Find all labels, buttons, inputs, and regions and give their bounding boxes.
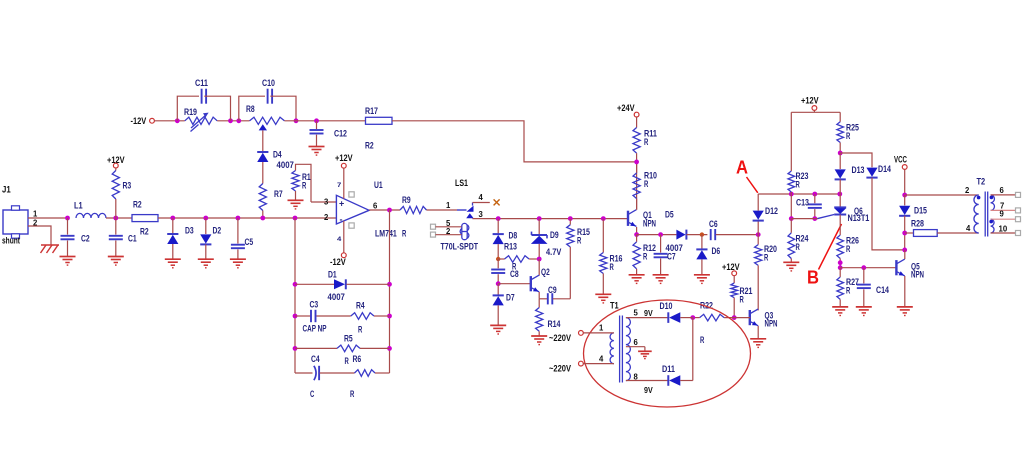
- capacitor C8: [491, 270, 505, 274]
- highlight ellipse: [584, 300, 751, 407]
- svg-text:R: R: [764, 253, 768, 264]
- wire to C4: [295, 372, 313, 374]
- wire R9 to relay pin 1: [427, 209, 458, 211]
- junction C7 node: [658, 232, 663, 237]
- ground under C2: [60, 257, 76, 266]
- wire to R14: [538, 299, 540, 308]
- wire to C5: [237, 218, 239, 244]
- relay coil: [460, 223, 469, 239]
- junction R3/C1 node: [113, 216, 118, 221]
- svg-text:4: 4: [966, 223, 971, 233]
- terminal ~220V pin 1: [579, 331, 584, 336]
- wire pin 8 T1 to D11: [626, 380, 668, 382]
- svg-text:C6: C6: [709, 219, 718, 230]
- wire Q1 emitter to node: [636, 227, 638, 235]
- wire to Q2 base: [498, 283, 530, 285]
- transformer T2 upper secondary winding: [991, 195, 995, 210]
- junction R21/R22 node: [732, 315, 737, 320]
- wire to C9: [539, 298, 547, 300]
- resistor R26: [837, 235, 844, 259]
- relay common lead: [457, 209, 467, 211]
- wire R16 to ground: [602, 274, 604, 294]
- svg-text:D6: D6: [712, 246, 721, 257]
- diode D15: [899, 206, 910, 216]
- relay contact to pin 3: [466, 213, 473, 218]
- svg-text:R17: R17: [365, 106, 378, 117]
- junction C10 left: [236, 118, 241, 123]
- wire D3 to ground: [172, 244, 174, 259]
- svg-text:3: 3: [324, 197, 329, 207]
- resistor R1: [292, 171, 299, 192]
- ground under R12: [629, 275, 645, 284]
- wire D13 to node A: [839, 179, 841, 194]
- svg-text:4.7V: 4.7V: [546, 247, 562, 258]
- polarity dot T2 upper secondary: [990, 196, 994, 200]
- diode D2: [200, 234, 211, 244]
- no-connect X on pin 4: [494, 199, 500, 205]
- wire D4 to R7: [262, 162, 264, 184]
- svg-text:C4: C4: [311, 354, 320, 365]
- resistor R7: [259, 184, 266, 211]
- wire R22 to Q3 base: [724, 317, 750, 319]
- wire +12V rail: [791, 111, 840, 113]
- wire Q6 to R26: [839, 215, 841, 235]
- svg-text:VCC: VCC: [894, 155, 907, 166]
- svg-text:C11: C11: [195, 78, 209, 89]
- wire C12 to ground: [316, 135, 318, 146]
- ground under C14: [856, 307, 872, 316]
- transformer T1 primary winding: [610, 333, 614, 364]
- svg-text:D12: D12: [765, 206, 778, 217]
- svg-text:R2: R2: [133, 200, 142, 211]
- svg-text:5: 5: [634, 308, 639, 318]
- pad pin 10 T2: [1016, 231, 1021, 236]
- wire C14 to ground: [863, 289, 865, 306]
- wire feedback left rail: [294, 218, 296, 373]
- svg-text:9V: 9V: [644, 385, 653, 395]
- pad pin 2 LS1: [431, 232, 436, 237]
- wire R4 to right rail: [374, 315, 390, 317]
- svg-text:R13: R13: [504, 242, 517, 253]
- wire rail to R23: [790, 112, 792, 171]
- svg-text:+24V: +24V: [617, 103, 635, 114]
- wire D2 to ground: [205, 244, 207, 258]
- wire D14 to VCC node: [872, 178, 905, 250]
- diode D5: [676, 230, 686, 240]
- svg-text:D5: D5: [665, 210, 674, 221]
- junction D1 left: [293, 282, 298, 287]
- svg-text:+12V: +12V: [801, 96, 819, 107]
- annotation line B: [819, 224, 842, 270]
- wire pin 4 T1: [583, 363, 614, 365]
- wire emitter node to D5: [637, 234, 677, 236]
- wire T2 pin 9: [991, 218, 1016, 220]
- wire +12V to R21: [733, 276, 735, 283]
- wire R24 to ground: [790, 259, 792, 262]
- wire node A to Q6: [839, 194, 841, 207]
- resistor R5: [337, 345, 360, 352]
- svg-text:R19: R19: [184, 107, 197, 118]
- ground T1 center tap: [638, 351, 652, 358]
- svg-text:~220V: ~220V: [549, 333, 572, 344]
- resistor R6: [355, 370, 376, 377]
- resistor R3: [112, 171, 119, 200]
- wire T2 pin 6: [991, 194, 1016, 196]
- svg-text:C7: C7: [667, 252, 676, 263]
- power terminal +12V R3: [113, 163, 118, 168]
- svg-text:R9: R9: [402, 195, 411, 206]
- transistor Q5: [896, 259, 905, 276]
- diode D13: [835, 169, 846, 179]
- svg-text:6: 6: [373, 201, 378, 211]
- svg-text:T70L-SPDT: T70L-SPDT: [441, 242, 479, 253]
- junction D6 node: [700, 232, 704, 236]
- wire R21 to base node: [733, 298, 735, 318]
- wire pin 1 T1: [583, 332, 614, 334]
- potentiometer R19: [185, 117, 217, 124]
- svg-text:C9: C9: [548, 285, 557, 296]
- resistor R27: [837, 277, 844, 299]
- wire to D8: [497, 219, 499, 234]
- wire to R27: [839, 268, 841, 277]
- wire to R20: [757, 235, 759, 245]
- svg-text:C5: C5: [245, 237, 254, 248]
- svg-text:U1: U1: [374, 180, 383, 191]
- wire to C8: [497, 259, 499, 268]
- svg-text:R: R: [610, 262, 614, 273]
- power terminal -12V op-amp: [341, 253, 346, 258]
- svg-text:4: 4: [599, 354, 604, 364]
- diode D10: [668, 312, 680, 323]
- svg-text:C2: C2: [81, 234, 90, 245]
- junction R26 lower: [838, 260, 843, 265]
- junction T2 pin2 node: [902, 193, 907, 198]
- wire R23 to node A: [790, 192, 792, 194]
- svg-text:R8: R8: [246, 104, 255, 115]
- svg-text:D15: D15: [914, 206, 928, 217]
- junction C11 right: [228, 118, 233, 123]
- wire to D6: [701, 235, 703, 249]
- svg-text:D10: D10: [660, 301, 673, 312]
- wire relay pin 5: [436, 226, 462, 228]
- wire C4 to R6: [320, 372, 355, 374]
- wire to R13: [498, 258, 504, 260]
- pad pin 6 T2: [1016, 192, 1021, 197]
- wire Q5 collector: [904, 250, 906, 259]
- power terminal -12V: [150, 118, 155, 123]
- trigger device Q6 N13T1: [818, 207, 847, 218]
- svg-text:shunt: shunt: [2, 236, 21, 247]
- polarity dot T2 primary: [977, 196, 981, 200]
- junction Q2 base node: [496, 281, 501, 286]
- svg-text:4007: 4007: [328, 292, 345, 303]
- svg-text:C12: C12: [334, 129, 347, 140]
- zener diode D9: [531, 232, 548, 244]
- resistor R25: [837, 122, 844, 143]
- svg-text:1: 1: [446, 200, 451, 210]
- wire op-amp pin 4 to -12V: [343, 221, 345, 253]
- potentiometer R8: [250, 117, 285, 124]
- junction C14 node: [861, 265, 866, 270]
- resistor R9: [400, 206, 427, 213]
- svg-text:R: R: [358, 325, 362, 336]
- junction C10 right: [294, 118, 299, 123]
- wire C1 to ground: [115, 241, 117, 257]
- transistor Q2: [530, 275, 539, 292]
- diode D7: [493, 295, 504, 305]
- wire R15 to C9: [569, 247, 571, 299]
- capacitor C6: [711, 229, 716, 240]
- power terminal +12V right: [812, 106, 817, 111]
- ground under R1: [288, 200, 304, 209]
- wire base row to Q5: [840, 267, 896, 269]
- wire Q1 collector to R10: [636, 162, 638, 210]
- wire to D7: [497, 284, 499, 295]
- resistor R11: [633, 128, 640, 154]
- transformer T1 secondary winding: [626, 318, 631, 381]
- wire R12 to ground: [636, 269, 638, 275]
- wire to R24: [790, 219, 792, 233]
- junction R11/R10 node: [634, 160, 639, 165]
- power terminal +24V: [634, 112, 639, 117]
- pad pin 5 LS1: [431, 224, 436, 229]
- resistor R22: [700, 314, 725, 321]
- svg-text:D1: D1: [328, 270, 337, 281]
- polarity dot T2 lower secondary: [989, 220, 993, 224]
- wire D6 to ground: [701, 259, 703, 274]
- svg-text:LS1: LS1: [455, 178, 469, 189]
- resistor R16: [600, 253, 607, 274]
- junction R5 left: [293, 346, 298, 351]
- wire to Q2 collector: [538, 259, 540, 276]
- capacitor C13: [808, 204, 822, 208]
- diode D14: [866, 168, 877, 178]
- svg-text:D4: D4: [273, 150, 282, 161]
- svg-text:D7: D7: [506, 293, 515, 304]
- transistor Q3: [749, 309, 758, 326]
- junction R15 node: [568, 216, 573, 221]
- wire C7 to ground: [660, 259, 662, 275]
- wire R5 to right rail: [360, 347, 390, 349]
- svg-text:R: R: [644, 137, 648, 148]
- svg-text:~220V: ~220V: [549, 364, 572, 375]
- wire R1 to ground: [295, 191, 297, 200]
- junction D13/Q6 node A: [837, 192, 842, 197]
- svg-text:LM741: LM741: [375, 229, 397, 240]
- wire D10 to node: [680, 317, 693, 319]
- ground under D6: [694, 275, 710, 284]
- junction R25/D13/D14: [838, 151, 843, 156]
- wire D11 to node: [680, 380, 693, 382]
- svg-text:9: 9: [1000, 209, 1005, 219]
- svg-text:C14: C14: [876, 285, 890, 296]
- wire D10 to R22: [693, 317, 700, 319]
- ground under D3: [165, 259, 181, 268]
- junction C2 node: [65, 216, 70, 221]
- wire to D15: [904, 195, 906, 205]
- wire R13 to D9 chain: [529, 258, 539, 260]
- wire R20 to Q3 collector: [757, 265, 759, 310]
- svg-text:R3: R3: [123, 181, 132, 192]
- wire VCC to pin2 node: [904, 169, 906, 195]
- wire R11 to R10: [636, 153, 638, 173]
- junction R16 node: [601, 216, 606, 221]
- ground under R16: [595, 294, 611, 303]
- wire to D2: [205, 218, 207, 234]
- svg-text:R: R: [700, 335, 704, 346]
- svg-text:R: R: [846, 244, 850, 255]
- ground under Q5: [897, 307, 913, 316]
- wire R28 to T2 pin 4: [937, 232, 979, 234]
- svg-text:NPN: NPN: [643, 219, 656, 230]
- wire feedback right rail: [389, 210, 391, 373]
- svg-text:R5: R5: [344, 334, 353, 345]
- junction C13 top: [812, 192, 817, 197]
- diode D8: [493, 234, 504, 244]
- wire R10 to Q1 collector: [636, 199, 638, 210]
- svg-text:T2: T2: [977, 177, 986, 188]
- ground under R27: [832, 307, 848, 316]
- resistor R28 box: [914, 230, 938, 237]
- wire -12V to R19: [154, 120, 184, 122]
- wire L1 to R2: [106, 217, 132, 219]
- wire +12V to op-amp pin 7: [343, 168, 345, 199]
- wire R6 to right rail: [375, 372, 390, 374]
- ground under C1: [108, 257, 124, 266]
- svg-text:R4: R4: [356, 301, 365, 312]
- junction R13 left: [496, 257, 500, 261]
- capacitor C5: [231, 245, 245, 249]
- svg-text:D11: D11: [662, 364, 676, 375]
- inductor L1: [76, 213, 106, 218]
- junction R23/node A: [789, 192, 794, 197]
- wire C13 to gate row: [814, 209, 816, 219]
- junction C13 bottom: [812, 216, 817, 221]
- svg-text:6: 6: [634, 337, 639, 347]
- svg-text:R2: R2: [365, 141, 374, 152]
- wire to T2 pin 2: [905, 194, 979, 196]
- resistor R24: [788, 233, 795, 259]
- svg-text:D2: D2: [213, 226, 222, 237]
- wire R25 to D13 node: [839, 143, 841, 154]
- resistor R4: [351, 313, 374, 320]
- wire to C3: [295, 315, 311, 317]
- wire pin 5 T1 to D10: [626, 317, 668, 319]
- pad pin 7 T2: [1016, 208, 1021, 213]
- transformer T2 primary winding: [974, 195, 979, 233]
- ground under Q3: [750, 339, 766, 348]
- capacitor C1: [109, 236, 123, 240]
- resistor R23: [788, 171, 795, 192]
- svg-text:R: R: [577, 236, 581, 247]
- svg-text:R: R: [740, 295, 744, 306]
- svg-text:R2: R2: [140, 227, 149, 238]
- wire C3 to R4: [317, 315, 351, 317]
- wiper arrow R19: [191, 113, 209, 132]
- junction D2 node: [203, 216, 208, 221]
- svg-text:+12V: +12V: [335, 153, 353, 164]
- junction D12/R20 node: [756, 232, 761, 237]
- svg-text:NPN: NPN: [765, 319, 778, 330]
- wire to R15: [569, 219, 571, 225]
- svg-text:B: B: [807, 268, 819, 288]
- wire wiper to D4: [262, 130, 264, 151]
- wire Q2 emitter: [538, 292, 540, 299]
- wire to C2: [67, 218, 69, 235]
- svg-text:+12V: +12V: [722, 262, 740, 273]
- diode D11: [668, 375, 680, 386]
- wire Q5 emitter to ground: [904, 276, 906, 306]
- wire to D3: [172, 218, 174, 233]
- wire pin3 to R1: [296, 164, 312, 202]
- svg-text:C13: C13: [796, 198, 809, 209]
- svg-text:6: 6: [1000, 185, 1005, 195]
- wire Q3 emitter to ground: [757, 326, 759, 338]
- svg-text:Q2: Q2: [541, 267, 550, 278]
- wire R27 to ground: [839, 299, 841, 306]
- wire gate row: [791, 218, 818, 220]
- wire to D1: [295, 283, 334, 285]
- wire to R5: [295, 347, 337, 349]
- svg-text:R: R: [402, 229, 406, 240]
- ground under C12: [309, 147, 325, 156]
- transformer T1 core: [620, 316, 623, 383]
- chassis ground: [41, 245, 60, 253]
- junction D9/R13: [537, 257, 542, 262]
- wire to R12: [636, 235, 638, 242]
- svg-text:1: 1: [599, 323, 604, 333]
- svg-text:9V: 9V: [644, 308, 653, 318]
- svg-text:2: 2: [965, 185, 970, 195]
- svg-text:L1: L1: [74, 201, 83, 212]
- power terminal +12V R21: [732, 271, 737, 276]
- svg-text:8: 8: [634, 372, 639, 382]
- ground under D7: [490, 325, 506, 334]
- svg-text:-: -: [340, 215, 343, 225]
- svg-text:NPN: NPN: [911, 270, 924, 281]
- junction Q1 emitter node: [634, 232, 639, 237]
- svg-text:2: 2: [446, 226, 451, 236]
- wire C6 to D12 node: [716, 234, 758, 236]
- junction D1 right: [387, 282, 392, 287]
- wire to C12: [316, 121, 318, 129]
- junction C3 left: [293, 314, 298, 319]
- svg-text:-12V: -12V: [131, 116, 147, 127]
- capacitor C3: [311, 310, 316, 322]
- svg-text:4007: 4007: [277, 160, 294, 171]
- diode D12: [753, 211, 764, 221]
- wire R8 to R17: [284, 120, 365, 122]
- wire to D13: [839, 153, 841, 169]
- connector J1: [3, 206, 28, 238]
- wire R23 node down: [790, 194, 792, 219]
- resistor R2 box: [132, 215, 158, 222]
- capacitor C11: [202, 89, 207, 104]
- resistor R21: [731, 283, 738, 298]
- wire C11 left leg: [177, 96, 199, 121]
- capacitor C7: [654, 254, 668, 257]
- svg-text:D9: D9: [550, 230, 559, 241]
- ground under C7: [653, 275, 669, 284]
- svg-text:D14: D14: [878, 164, 892, 175]
- svg-text:A: A: [736, 158, 748, 178]
- wire relay pin 4: [473, 202, 490, 204]
- wire to op-amp pin 3: [311, 201, 336, 203]
- svg-text:-12V: -12V: [330, 257, 346, 268]
- svg-text:J1: J1: [2, 185, 11, 196]
- wire +12V to R3: [115, 168, 117, 171]
- wire to R16: [602, 219, 604, 253]
